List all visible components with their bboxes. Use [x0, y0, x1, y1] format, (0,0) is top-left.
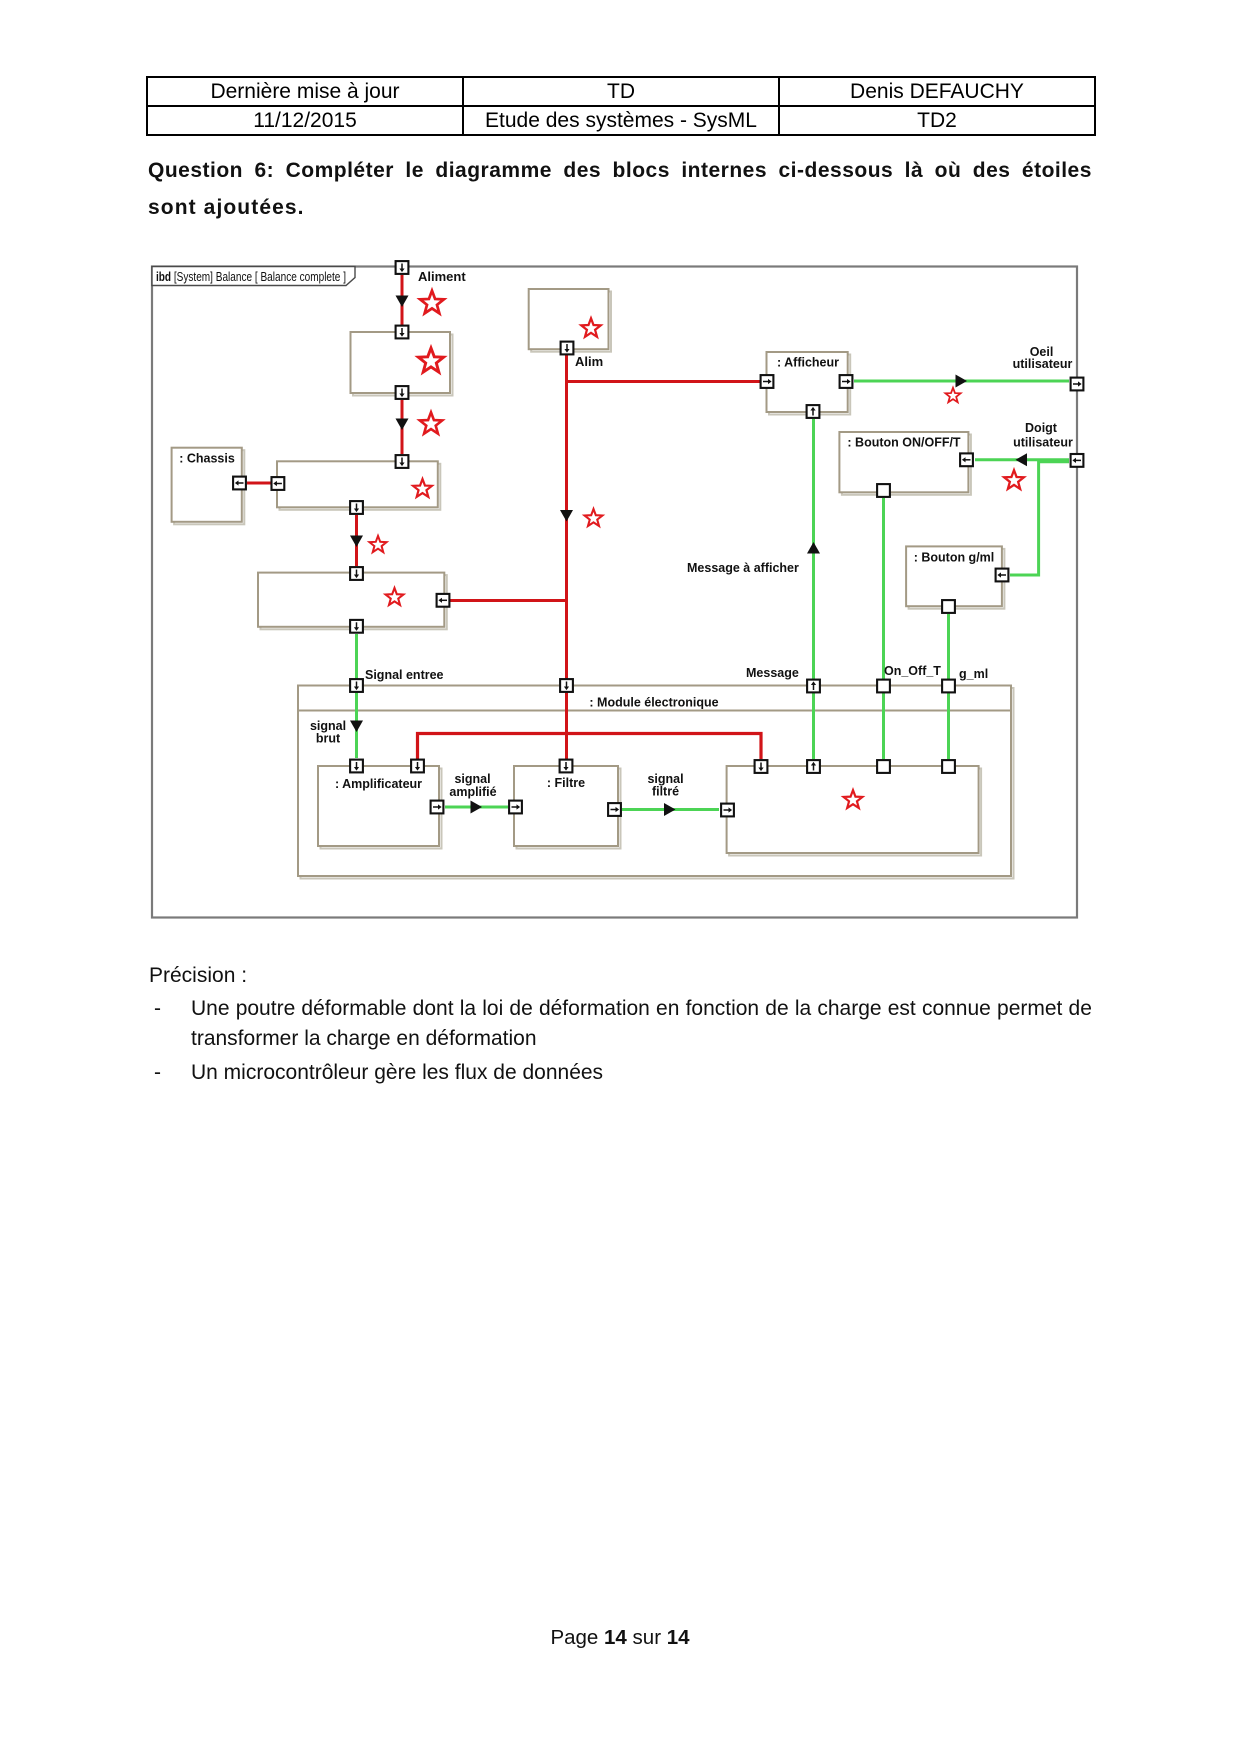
port microcontroleur g_ml — [942, 760, 955, 773]
frame port Doigt utilisateur — [1071, 454, 1084, 467]
block Amplificateur — [318, 766, 442, 849]
svg-text:signal: signal — [454, 772, 490, 786]
port Filtre top — [560, 760, 573, 773]
label signal filtre — [647, 772, 683, 799]
label Alim — [575, 354, 603, 369]
wire red Chassis to block2 — [247, 482, 271, 485]
port microcontroleur On_Off_T — [877, 760, 890, 773]
wire green signal filtre — [622, 808, 719, 811]
port module Message — [807, 680, 820, 693]
port block2 bottom — [350, 501, 363, 514]
question title line 1 — [148, 160, 1092, 181]
port block3 bottom — [350, 620, 363, 633]
port Filtre right — [608, 803, 621, 816]
svg-text:brut: brut — [316, 732, 341, 746]
star in block1 — [418, 348, 443, 372]
port module alim — [560, 679, 573, 692]
svg-text:Doigt: Doigt — [1025, 421, 1058, 435]
bullet line 3 — [191, 1062, 603, 1083]
svg-text:amplifié: amplifié — [449, 785, 496, 799]
flow arrow down on block2-block3 wire — [350, 536, 363, 548]
star near block2-block3 arrow — [369, 536, 386, 552]
svg-text:utilisateur: utilisateur — [1013, 436, 1073, 450]
diagram tab — [152, 267, 355, 286]
svg-text:: Amplificateur: : Amplificateur — [335, 777, 422, 791]
star near Doigt wire — [1004, 470, 1024, 489]
wire green branch Doigt to Bouton g/ml — [1010, 460, 1039, 575]
port Amplificateur top-right — [411, 760, 424, 773]
svg-text:: Afficheur: : Afficheur — [777, 356, 839, 370]
question title line 2 — [148, 197, 1092, 218]
header table — [146, 76, 1096, 136]
block2 unnamed (middle) — [277, 461, 440, 510]
page footer — [0, 1627, 1240, 1648]
block1 unnamed (top) — [351, 332, 453, 396]
svg-text:: Module électronique: : Module électronique — [589, 696, 718, 710]
port Bouton g/ml right — [996, 569, 1009, 582]
block microcontroleur unnamed — [727, 766, 982, 856]
wire green Message vertical — [812, 419, 815, 759]
svg-text:Message à afficher: Message à afficher — [687, 561, 799, 575]
label On_Off_T — [884, 664, 941, 678]
port module On_Off_T — [877, 680, 890, 693]
port Afficheur left — [761, 375, 774, 388]
port Filtre left — [509, 801, 522, 814]
svg-text:filtré: filtré — [652, 785, 679, 799]
port Amplificateur top-left — [350, 760, 363, 773]
block Bouton g/ml — [906, 546, 1004, 608]
star in microcontroleur block — [844, 790, 863, 808]
flow arrow down on Alim trunk — [560, 510, 573, 522]
port Afficheur bottom — [807, 405, 820, 418]
star in block2 — [413, 479, 432, 497]
block Chassis — [172, 448, 245, 525]
flow arrow down on Aliment wire — [396, 296, 409, 308]
wire green Doigt overlap segment — [1039, 460, 1069, 463]
star in block3 — [386, 588, 404, 605]
port microcontroleur power — [755, 760, 768, 773]
port block1 top — [396, 326, 409, 339]
flow arrow up on Message wire — [807, 542, 820, 554]
svg-text:On_Off_T: On_Off_T — [884, 664, 941, 678]
label g_ml — [959, 667, 988, 681]
port block3 right — [437, 594, 450, 607]
star near Oeil wire — [945, 388, 960, 402]
port block1 bottom — [396, 386, 409, 399]
wire green Afficheur to Oeil utilisateur — [854, 380, 1069, 383]
label Oeil utilisateur — [1013, 345, 1073, 371]
diagram frame — [152, 267, 1077, 918]
wire red Aliment to block1 — [401, 275, 404, 325]
label Aliment — [418, 269, 466, 284]
svg-text:utilisateur: utilisateur — [1013, 357, 1073, 371]
svg-text:: Chassis: : Chassis — [179, 452, 235, 466]
svg-text:: Filtre: : Filtre — [547, 776, 585, 790]
wire red block2 to block3 — [355, 515, 358, 566]
bullet line 1 — [191, 998, 1092, 1019]
wire green signal entree — [355, 634, 358, 758]
label signal brut — [310, 719, 346, 746]
wire green signal amplifie — [445, 806, 508, 809]
wire green On_Off_T vertical — [882, 498, 885, 759]
bullet line 2 — [191, 1028, 537, 1049]
flow arrow right on Oeil wire — [956, 375, 968, 388]
block Bouton ON/OFF/T — [839, 432, 971, 495]
port Bouton ON/OFF/T bottom — [877, 484, 890, 497]
port block3 top — [350, 567, 363, 580]
svg-text:g_ml: g_ml — [959, 667, 988, 681]
svg-text:Message: Message — [746, 666, 799, 680]
port microcontroleur left — [721, 804, 734, 817]
svg-text:Aliment: Aliment — [418, 269, 466, 284]
port Chassis right — [233, 477, 246, 490]
port Bouton g/ml bottom — [942, 600, 955, 613]
label Message — [746, 666, 799, 680]
wire red branch to block3 right port — [450, 599, 567, 602]
label Message a afficher — [687, 561, 799, 575]
block Alim (capteur) — [529, 289, 611, 352]
svg-text:Alim: Alim — [575, 354, 603, 369]
label signal amplifie — [449, 772, 496, 799]
block Module electronique — [298, 686, 1014, 879]
wire red Alim vertical trunk — [565, 355, 568, 759]
port Bouton ON/OFF/T right — [960, 453, 973, 466]
port module g_ml — [942, 680, 955, 693]
svg-text:: Bouton ON/OFF/T: : Bouton ON/OFF/T — [847, 436, 961, 450]
port block2 top — [396, 455, 409, 468]
star in Alim block — [581, 318, 600, 336]
label Signal entree — [365, 668, 444, 682]
flow arrow right signal filtre — [664, 803, 676, 816]
block Afficheur — [767, 352, 851, 415]
flow arrow down on block1-block2 wire — [396, 419, 409, 431]
label Doigt utilisateur — [1013, 421, 1073, 450]
bullet dash 2 — [154, 1062, 161, 1083]
bullet dash 1 — [154, 998, 161, 1019]
wire red block1 to block2 — [401, 400, 404, 454]
flow arrow left on Doigt wire — [1016, 453, 1028, 466]
frame port Oeil utilisateur — [1071, 378, 1084, 391]
block Filtre — [514, 766, 621, 849]
svg-text:: Bouton g/ml: : Bouton g/ml — [914, 551, 995, 565]
star near Alim trunk arrow — [585, 509, 603, 526]
flow arrow right signal amplifie — [471, 801, 483, 814]
wire green g_ml vertical — [947, 614, 950, 759]
flow arrow down signal brut — [350, 721, 363, 733]
block3 unnamed (poutre) — [258, 573, 447, 630]
wire red power to amplifier and microcontroller — [418, 734, 762, 760]
svg-text:Signal entree: Signal entree — [365, 668, 444, 682]
port Afficheur right — [840, 375, 853, 388]
wire red branch to Afficheur — [567, 380, 761, 383]
svg-text:ibd [System] Balance [ Balance: ibd [System] Balance [ Balance complete … — [156, 270, 346, 284]
star near block1-block2 arrow — [420, 412, 442, 433]
precision heading — [149, 965, 247, 986]
frame port Aliment — [396, 261, 409, 274]
port block2 left — [272, 477, 285, 490]
port module signal entree — [350, 679, 363, 692]
star near Aliment arrow — [420, 291, 444, 314]
wire green Doigt utilisateur to Bouton ON/OFF/T — [975, 458, 1069, 461]
port Amplificateur right — [431, 801, 444, 814]
port Alim bottom — [561, 342, 574, 355]
port microcontroleur Message — [807, 760, 820, 773]
